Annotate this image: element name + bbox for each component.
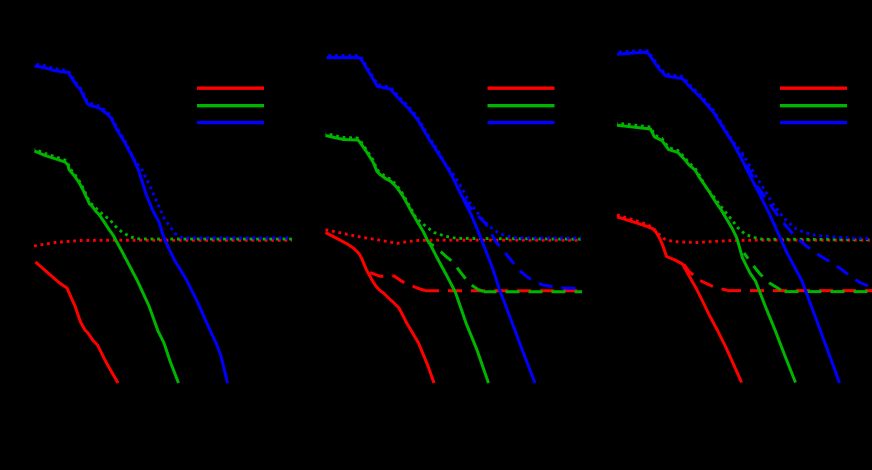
panel3 legend red line [780,86,847,89]
panel3 blue dotted curve [617,50,872,238]
panel2 legend blue line [488,121,555,124]
panel2 green dotted curve [326,134,582,240]
panel2 blue dashed curve [458,189,582,288]
panel2 green dashed curve [428,242,484,292]
panel3 green dashed curve [744,253,783,291]
panel1 blue dotted curve [35,64,293,238]
panel1 legend red line [197,86,264,89]
panel3 blue dashed curve [742,155,872,288]
panel2 legend red line [488,86,555,89]
panel3 red dotted curve [617,215,872,243]
panel2 blue dotted curve [327,56,582,239]
panel1 blue solid curve [35,66,228,383]
panel3 green dotted curve [617,123,872,239]
panel1 red solid curve [36,262,119,383]
panel3 red dashed flat [727,289,872,292]
panel2 red dotted curve [326,230,582,244]
panel2 red solid curve [326,233,435,384]
panel2 blue solid curve [327,58,536,383]
panel1 red dotted curve [34,240,292,246]
panel3 red solid curve [617,217,742,383]
panel1 green dotted curve [35,149,293,239]
panel3 legend green line [780,104,847,107]
panel1 legend green line [197,104,264,107]
panel2 legend green line [488,104,555,107]
panel2 red dashed curve [370,273,425,291]
panel3 green solid curve [617,125,796,382]
panel2 green dashed flat [484,290,582,293]
panel1 legend blue line [197,121,264,124]
panel3 green dashed flat [783,290,872,293]
panel3 blue solid curve [617,52,840,383]
panel2 red dashed flat [425,289,582,292]
panel3 red dashed curve [684,265,727,291]
panel3 legend blue line [780,121,847,124]
panel1 green solid curve [35,151,179,383]
panel2 green solid curve [326,136,489,384]
